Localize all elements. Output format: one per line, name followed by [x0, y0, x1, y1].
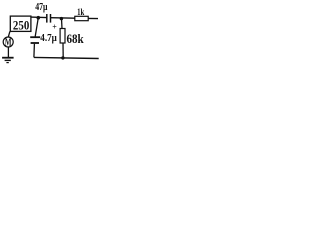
- svg-text:M: M: [5, 37, 12, 48]
- ground bar 3: [6, 62, 8, 64]
- source circle: [3, 37, 13, 47]
- wire node A down to C2: [35, 18, 38, 36]
- bottom rail: [34, 57, 99, 58]
- resistor R2 1k box: [75, 16, 88, 20]
- wire between cap and 1k: [50, 17, 75, 20]
- wire box down to source: [8, 31, 10, 37]
- svg-text:1k: 1k: [77, 8, 85, 18]
- capacitor C1 47u plates: [46, 14, 48, 23]
- wire source to ground: [7, 47, 9, 57]
- wire 1k to right terminal: [88, 17, 98, 19]
- resistor box 250 (source internal resistance): [10, 16, 31, 31]
- ground bar 2: [5, 59, 11, 61]
- wire node B down to R3: [61, 18, 64, 28]
- svg-text:4.7μ: 4.7μ: [40, 33, 57, 44]
- ground bar 1: [2, 57, 14, 59]
- resistor R3 68k box: [60, 29, 65, 44]
- capacitor C2 4.7u top plate: [30, 36, 40, 38]
- wire R3 down to rail: [62, 43, 64, 58]
- svg-text:+: +: [52, 22, 57, 31]
- wire top main: [31, 16, 47, 19]
- wire C2 down to rail: [33, 44, 36, 58]
- capacitor C2 4.7u bottom plate: [31, 42, 39, 44]
- node A junction dot: [37, 16, 41, 20]
- rail junction dot: [61, 56, 64, 59]
- node B junction dot: [60, 17, 63, 20]
- svg-text:68k: 68k: [67, 31, 85, 46]
- svg-text:250: 250: [13, 18, 29, 33]
- svg-text:47μ: 47μ: [35, 2, 47, 13]
